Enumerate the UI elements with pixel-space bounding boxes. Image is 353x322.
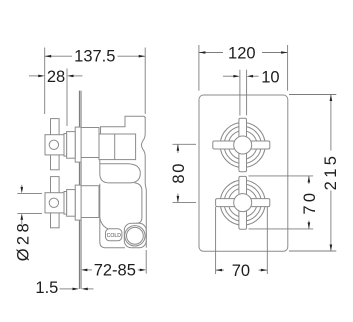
svg-text:137.5: 137.5 (74, 48, 115, 66)
upper handle top arm (side) (51, 119, 60, 135)
spindle extension line left (239, 70, 241, 116)
svg-text:80: 80 (170, 162, 188, 184)
upper handle skirt (side) (67, 132, 76, 159)
dim 215 leader bottom (289, 250, 336, 252)
lower handle arms (front) (216, 176, 270, 229)
upper handle arms (front) (213, 118, 270, 171)
dim D28 extension line bottom (17, 212, 42, 214)
wall plate line (80, 91, 82, 289)
upper handle hub hole (side) (49, 140, 58, 149)
COLD boss (106, 229, 122, 241)
dim 215 line (330, 95, 332, 151)
cartridge block divider (114, 134, 116, 160)
valve body neck lower (behind wall) (81, 186, 99, 218)
svg-text:70: 70 (301, 190, 319, 215)
svg-text:28: 28 (47, 68, 65, 86)
dim 1.5 leader + arrows (60, 288, 73, 290)
upper handle hub block (side) (45, 135, 64, 155)
body curve below lower neck (100, 218, 113, 231)
dim D28 extension line top (17, 192, 42, 194)
upper handle hub circle (front) (234, 136, 252, 154)
dim 137.5 arrow left (45, 55, 52, 58)
dim 120 extension line left (198, 45, 200, 91)
svg-text:COLD: COLD (107, 233, 122, 239)
svg-text:10: 10 (261, 68, 279, 86)
body lower-left edge and bottom (100, 184, 125, 248)
svg-text:Ø28: Ø28 (14, 220, 32, 261)
lower handle hub circle (front) (234, 194, 252, 212)
dim 70 horizontal line (216, 269, 224, 271)
lower handle stem (side) (64, 192, 67, 215)
dim 80 line (177, 144, 179, 153)
svg-text:215: 215 (322, 153, 340, 191)
dim 120 line (199, 52, 223, 54)
upper handle rings (front) (220, 123, 265, 168)
lower handle hub block (side) (45, 193, 64, 213)
dim 72-85 line (87, 269, 92, 271)
dim 70 vertical line (308, 176, 310, 184)
spindle extension line right (246, 70, 248, 116)
body mid housing line (100, 164, 141, 183)
wall finished-surface line (78, 91, 80, 289)
lower handle bottom arm (side) (51, 213, 60, 228)
body pipe to outlet (135, 183, 142, 223)
lower handle top arm (side) (51, 177, 60, 193)
svg-text:72-85: 72-85 (94, 262, 136, 280)
dim 72-85 extension line right (145, 250, 147, 274)
dim 70 horizontal arrows (216, 269, 223, 272)
dim 28 extension line right (66, 69, 68, 127)
svg-text:70: 70 (232, 262, 250, 280)
dim 137.5 extension line left (44, 48, 46, 115)
upper handle escutcheon (side) (75, 127, 81, 162)
svg-text:1.5: 1.5 (35, 279, 58, 297)
valve body neck upper (behind wall) (81, 128, 99, 158)
body top step outline (101, 116, 146, 134)
outlet housing (124, 223, 146, 248)
dim 70 horizontal extension line left (215, 207, 217, 274)
upper handle bottom arm (side) (51, 155, 60, 170)
outlet cap inner circle (126, 227, 143, 244)
dim 28 line + outside arrows (29, 75, 38, 77)
lower handle rings (front) (220, 180, 265, 225)
dim 70 vertical leader top (249, 175, 314, 177)
dim 137.5 extension line right (144, 48, 146, 114)
dim D28 arrows (21, 185, 23, 187)
dim 70 vertical arrows (308, 176, 311, 183)
dim 137.5 line (45, 55, 72, 57)
dim 80 arrows (177, 144, 180, 151)
dim 120 arrows (199, 51, 206, 54)
dim 137.5 arrow right (139, 55, 146, 58)
body right edge (142, 117, 147, 248)
dim 80 leader top (173, 143, 197, 145)
dim 215 arrows (330, 95, 333, 102)
cover plate (199, 95, 288, 251)
body lower bulge top edge (100, 160, 131, 183)
outlet cap outer circle (125, 226, 145, 246)
lower handle skirt (side) (67, 190, 76, 217)
lower handle hub hole (side) (49, 198, 58, 207)
lower handle escutcheon (side) (75, 185, 81, 220)
dim 70 vertical leader bottom (249, 228, 314, 230)
dim 215 leader top (289, 94, 336, 96)
svg-text:120: 120 (228, 45, 256, 63)
dim 120 extension line right (287, 45, 289, 91)
dim 80 leader bottom (173, 201, 197, 203)
upper cartridge block (99, 134, 136, 160)
dim 70 horizontal extension line right (266, 207, 268, 274)
dim 10 line + outside arrows (223, 75, 234, 77)
upper handle stem (side) (64, 134, 67, 157)
